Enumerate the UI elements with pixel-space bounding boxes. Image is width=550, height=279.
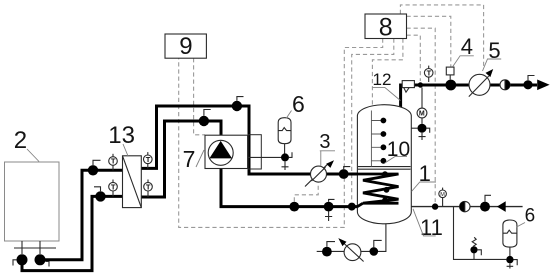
cold water inlet arrow — [497, 201, 506, 212]
svg-text:T: T — [111, 157, 116, 166]
motor valve 4 — [446, 67, 454, 75]
expansion vessel 6b — [503, 220, 517, 247]
thermometer T hx top-left — [109, 154, 118, 171]
control line controller8 to motor valve M1 — [407, 35, 421, 81]
line to expansion vessel 6a — [248, 156, 285, 158]
svg-text:7: 7 — [183, 146, 196, 172]
valve on HX top-left pipe — [88, 165, 98, 175]
heat exchanger 13 — [123, 156, 142, 208]
pipe recirculation line — [317, 224, 386, 252]
valve on lower pipe (sensor) — [289, 202, 299, 212]
pipe cold water inlet bottom-right — [411, 206, 522, 208]
tank temperature sensors 10 — [381, 118, 387, 124]
expansion vessel 6a — [278, 118, 291, 144]
svg-text:13: 13 — [108, 122, 135, 149]
boiler 2 — [5, 162, 60, 241]
svg-text:T: T — [427, 69, 432, 78]
svg-text:6: 6 — [525, 205, 536, 226]
thermometer T dhw — [424, 66, 433, 82]
motor valve M2 — [439, 188, 447, 207]
pipe HX top-right to valve3 to tank coil top — [141, 106, 357, 174]
control line controller8 to valve5 — [400, 5, 483, 68]
mixing valve 5 — [469, 69, 493, 97]
valve at tank coil inlet — [348, 203, 356, 211]
pipe HX bottom-right through pump7 to tank coil bottom — [141, 121, 357, 207]
svg-text:M: M — [419, 111, 425, 118]
valve 3 (balancing valve) — [305, 160, 334, 186]
valve at boiler return — [17, 254, 28, 265]
svg-text:6: 6 — [292, 91, 305, 117]
svg-text:T: T — [111, 182, 116, 191]
svg-text:9: 9 — [179, 33, 192, 60]
check valve cold water — [460, 201, 470, 211]
thermometer T hx top-right — [144, 152, 153, 168]
valve on cold water inlet — [480, 202, 490, 212]
valve before dhw outlet — [523, 80, 532, 89]
valve on inner top pipe — [199, 116, 209, 126]
dhw outlet arrow — [537, 80, 549, 91]
sensor stubs — [371, 121, 380, 161]
pump 7 housing — [205, 135, 248, 168]
control line controller8 to tank-bottom valve — [352, 39, 394, 203]
svg-text:T: T — [146, 155, 151, 164]
recirculation valve right — [370, 247, 379, 256]
tank coil 11 — [356, 174, 399, 207]
control line valve3 capillary to sensor — [294, 183, 318, 202]
storage tank 12 body — [357, 105, 411, 224]
tank separator lines — [358, 167, 411, 170]
pump 7 side box — [248, 135, 261, 169]
valve sensor on cold water pipe — [432, 203, 438, 209]
svg-text:3: 3 — [319, 131, 330, 153]
svg-text:8: 8 — [379, 13, 393, 41]
svg-text:12: 12 — [373, 70, 392, 89]
pipe boiler flow to heat exchanger top-left — [40, 170, 123, 259]
safety valve — [470, 237, 481, 259]
svg-text:T: T — [146, 182, 151, 191]
svg-text:10: 10 — [387, 138, 410, 161]
control line controller9 to controller8 (dashed bus) — [179, 39, 383, 228]
pipe expansion branch bottom-right — [454, 207, 507, 260]
control line controller8 to tank sensors — [372, 39, 403, 112]
valve at boiler flow — [35, 254, 46, 265]
motor valve M1 at tank right — [411, 88, 430, 141]
valve with drain on lower pipe — [324, 202, 334, 212]
controller 8 — [365, 14, 407, 39]
recirculation valve left — [322, 247, 332, 257]
valve under vessel 6b — [506, 256, 513, 263]
air vent on tank outlet — [402, 81, 414, 88]
thermometer T hx bottom-right — [144, 180, 153, 198]
pipe tank top outlet riser — [401, 85, 537, 108]
control line controller9 to pump7 — [194, 58, 205, 135]
thermometer T hx bottom-left — [109, 180, 118, 197]
svg-text:2: 2 — [14, 127, 27, 154]
valve right of valve3 — [339, 169, 349, 179]
boiler connection stubs — [14, 241, 56, 254]
junction dot — [418, 82, 423, 87]
tank sensor bus — [370, 111, 372, 167]
valve on outer top pipe — [232, 101, 242, 111]
valve under vessel 6a — [281, 153, 289, 161]
check valve dhw — [500, 80, 510, 90]
pipe boiler return to heat exchanger bottom-left — [22, 196, 123, 270]
control line controller8 to bottom sensor valve — [407, 28, 436, 202]
valve on HX bottom-left pipe — [95, 191, 105, 201]
svg-text:M: M — [440, 192, 445, 198]
controller 9 — [165, 34, 206, 58]
recirculation pump — [338, 238, 363, 261]
control line controller8 to valve4 — [407, 16, 451, 66]
pump 7 — [208, 140, 233, 165]
